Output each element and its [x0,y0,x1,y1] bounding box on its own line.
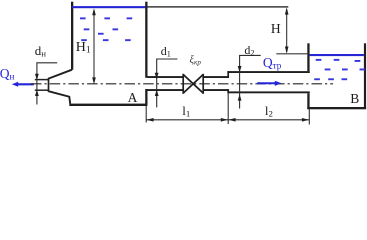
Q_tr blue arrow [257,82,276,84]
tank A water line [72,6,145,8]
right tank left wall lower [307,93,309,109]
right tank left wall upper [307,43,309,71]
nozzle end cap [48,78,50,92]
H dimension arrow [286,10,288,53]
label l2 (pipe 2 length) [265,104,273,118]
centerline dash-dot [31,83,333,85]
label d_n (nozzle diameter) [35,44,46,58]
label xi_kr (valve loss coefficient) [190,56,201,67]
Q_n blue arrow [18,83,34,85]
valve diagonals [183,75,203,94]
right tank dashes [314,59,365,80]
label d2 (pipe 2 diameter) [244,44,254,58]
pipe2 bottom wall [227,91,309,93]
label A (pipe inlet point) [128,91,138,105]
label H (head difference) [271,22,281,36]
tank A bottom [69,104,147,106]
dimension line l1 l2 [146,119,309,121]
right tank bottom [307,107,366,109]
label Q_tr (pipe flow) [263,56,281,71]
H1 dimension arrow [93,10,95,83]
label B (right tank point) [350,92,359,106]
pipe1 bottom wall [147,89,183,91]
pipe2 top wall [227,71,309,73]
right tank water line [310,54,364,56]
d_n bottom extension line [35,89,49,91]
right tank right wall [364,43,366,109]
tank A water dashes [80,17,132,41]
label d1 (pipe 1 diameter) [161,45,171,59]
pipe1 top wall [147,76,183,78]
H extension line [276,53,308,55]
d_n top extension line [35,79,49,81]
tank A left wall [71,2,73,70]
tank A right wall upper [145,2,147,78]
d1 leader [157,59,178,107]
nozzle bottom diagonal [48,91,70,104]
step verticals [227,71,229,78]
label l1 (pipe 1 length) [182,104,190,118]
d_n leader [37,63,57,105]
dimension extension lines [146,94,309,125]
label Q_n (nozzle flow) [0,67,14,82]
tank A right wall lower [145,89,147,105]
nozzle top diagonal [48,70,72,79]
label H1 (left tank head) [76,41,91,56]
d2 leader [240,55,261,108]
valve bars [182,74,184,94]
top reference line [147,6,288,8]
